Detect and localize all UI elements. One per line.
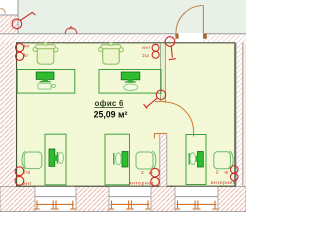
svg-text:инт: инт (23, 182, 32, 187)
svg-text:2ш: 2ш (142, 53, 149, 58)
svg-text:интернет: интернет (129, 182, 155, 187)
svg-text:интернет: интернет (211, 181, 236, 186)
svg-text:2ш: 2ш (23, 170, 30, 176)
svg-text:офис 6: офис 6 (95, 99, 124, 108)
svg-text:2 ш: 2 ш (216, 170, 229, 176)
svg-text:2 ш: 2 ш (141, 170, 153, 176)
svg-text:25,09 м²: 25,09 м² (94, 109, 128, 119)
svg-text:2ш: 2ш (23, 53, 28, 58)
svg-text:инт: инт (23, 43, 30, 48)
svg-text:инт: инт (142, 45, 151, 50)
